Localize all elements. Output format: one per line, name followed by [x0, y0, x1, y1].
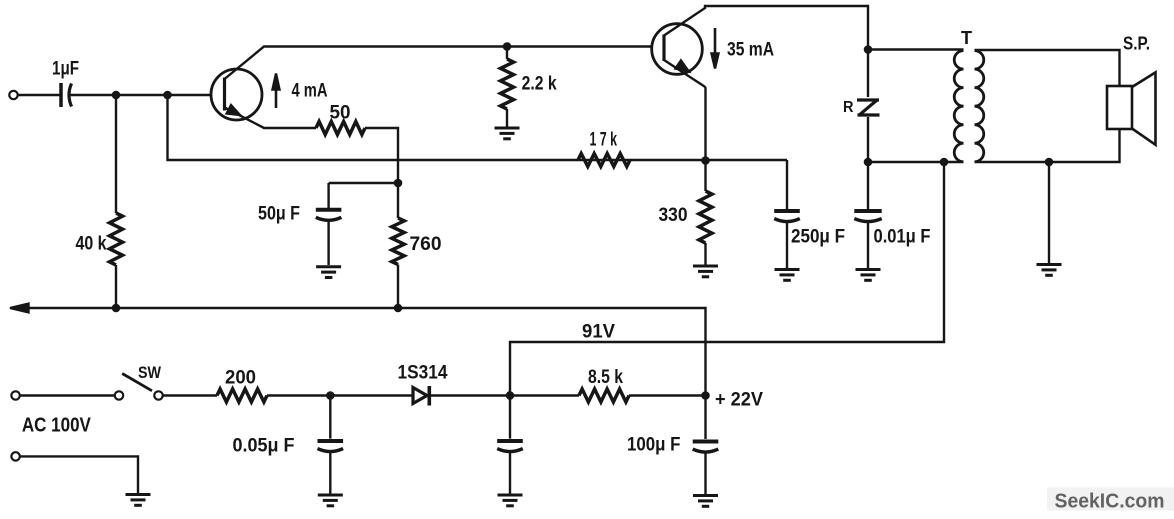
- svg-text:1μF: 1μF: [52, 59, 79, 80]
- svg-text:200: 200: [225, 367, 256, 388]
- svg-text:0.01μ F: 0.01μ F: [874, 227, 931, 248]
- svg-text:R: R: [843, 99, 854, 116]
- svg-text:40 k: 40 k: [76, 234, 107, 255]
- svg-text:T: T: [961, 28, 972, 48]
- svg-text:4 mA: 4 mA: [292, 81, 328, 102]
- svg-text:1 7 k: 1 7 k: [590, 130, 618, 151]
- svg-text:S.P.: S.P.: [1123, 34, 1150, 54]
- svg-text:35 mA: 35 mA: [727, 40, 774, 61]
- svg-text:91V: 91V: [582, 322, 615, 343]
- svg-text:8.5 k: 8.5 k: [588, 367, 623, 388]
- svg-text:250μ F: 250μ F: [791, 227, 845, 248]
- svg-text:SW: SW: [138, 363, 162, 382]
- svg-text:330: 330: [659, 205, 688, 226]
- svg-text:SeekIC.com: SeekIC.com: [1055, 490, 1165, 513]
- svg-text:0.05μ F: 0.05μ F: [233, 436, 295, 457]
- svg-text:+ 22V: + 22V: [715, 390, 763, 411]
- svg-text:100μ F: 100μ F: [627, 435, 681, 456]
- svg-text:2.2 k: 2.2 k: [522, 74, 557, 95]
- svg-text:1S314: 1S314: [398, 363, 448, 384]
- svg-text:AC 100V: AC 100V: [22, 415, 92, 437]
- svg-text:50: 50: [330, 103, 351, 124]
- svg-text:50μ F: 50μ F: [258, 204, 300, 225]
- svg-text:760: 760: [410, 234, 442, 255]
